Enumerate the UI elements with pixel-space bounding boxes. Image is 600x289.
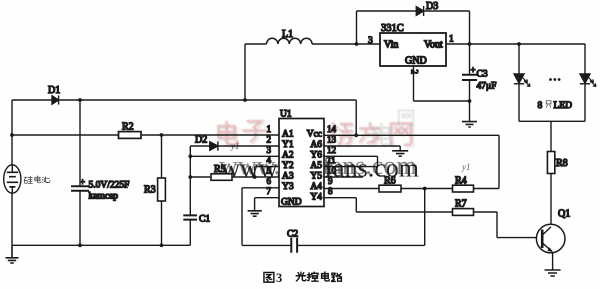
wire: D2 anode to left node [190, 145, 210, 147]
svg-text:Q1: Q1 [558, 209, 570, 220]
svg-text:A2: A2 [282, 151, 294, 161]
resistor R5 [190, 176, 211, 178]
svg-text:A5: A5 [310, 161, 322, 171]
diode D2 [210, 141, 218, 150]
wire: 331C GND pin down and right [414, 66, 470, 101]
图3 光控电路 [264, 272, 274, 282]
transistor Q1 [536, 224, 565, 253]
diode D1 [52, 95, 59, 104]
svg-text:331C: 331C [381, 23, 404, 34]
svg-text:LED: LED [554, 101, 573, 111]
junction: Vin node / D3 branch [355, 42, 359, 46]
svg-text:U1: U1 [280, 110, 292, 120]
junction: Vout node / C3 branch [468, 42, 472, 46]
svg-text:Vout: Vout [424, 40, 443, 51]
junction: supercap top on +V rail [78, 98, 82, 102]
resistor R8 [547, 152, 554, 174]
resistor R2 [119, 132, 142, 139]
wire: top rail after D1 to corner at U1 [59, 99, 357, 101]
regulator U2 331C box [380, 33, 446, 66]
ground (pin13) [392, 151, 408, 156]
wire: pin10 stub [324, 176, 363, 178]
svg-text:Vin: Vin [384, 40, 398, 51]
svg-text:R7: R7 [455, 199, 467, 210]
wire: R8 to Q1 collector [550, 174, 552, 225]
svg-text:Y4: Y4 [310, 193, 322, 203]
junction: Vout node / LED1 branch [517, 42, 521, 46]
junction: R3 bottom on ground rail [160, 243, 164, 247]
resistor R7 [453, 209, 474, 216]
dots ... between LEDs [549, 78, 560, 81]
svg-text:Y2: Y2 [282, 161, 294, 171]
label 硅电池 [24, 176, 50, 184]
wire: R2 to U1 pin 1 [141, 134, 279, 136]
svg-text:R5: R5 [214, 164, 226, 175]
svg-text:8: 8 [328, 186, 333, 196]
ground (under C3) [462, 122, 477, 127]
svg-text:+: + [80, 177, 85, 187]
wire: pin11 stub [324, 156, 378, 166]
svg-text:C1: C1 [199, 215, 210, 225]
capacitor C3 plates [462, 75, 477, 80]
watermark red chinese characters 电子发烧友网 [220, 123, 413, 148]
capacitor C2 [291, 238, 297, 253]
wire: Q1 emitter to ground [552, 252, 554, 270]
svg-text:Y5: Y5 [310, 172, 322, 182]
wire: pin4/pin5 tie [255, 167, 279, 177]
resistor R3 [161, 135, 163, 178]
svg-text:C2: C2 [287, 230, 298, 240]
U1 pin numbers right [327, 124, 337, 196]
junction: L1 branch on +V rail [243, 98, 247, 102]
svg-text:3: 3 [368, 36, 373, 46]
diode D3 [416, 6, 423, 16]
junction: 331C GND / C3 ground node [468, 99, 472, 103]
LED D-right branch wire [584, 44, 586, 74]
svg-text:R6: R6 [384, 176, 396, 187]
junction: Vcc rail / pin14 node [354, 133, 358, 137]
wire: Vcc down to R4 [498, 135, 500, 188]
svg-text:A6: A6 [310, 140, 322, 150]
svg-text:5.0V/225F: 5.0V/225F [89, 181, 130, 191]
U1 pin numbers left [267, 124, 272, 196]
svg-text:y1: y1 [461, 162, 471, 172]
svg-text:GND: GND [281, 198, 302, 208]
junction: R2 tap on battery rail [10, 133, 14, 137]
capacitor C3 leads [469, 44, 471, 121]
svg-text:47μF: 47μF [477, 82, 497, 92]
wire: R2 input from battery rail [12, 134, 119, 136]
wire: C2 right to R6/R4 node [297, 189, 425, 246]
svg-text:+: + [471, 65, 476, 75]
wire: top rail left segment (battery+ to D1 anode) [12, 99, 52, 101]
junction: supercap bottom on ground rail [78, 243, 82, 247]
wire: LED bank to R8 [550, 121, 552, 151]
wire: pin6 Y3 down to C2 [242, 188, 291, 246]
wire: D3 top wire left [357, 10, 417, 12]
LED bank left branch wire [518, 44, 520, 74]
U1 internal labels left column [281, 130, 302, 208]
ground (bottom-left) [6, 245, 19, 263]
svg-text:Y1: Y1 [282, 140, 294, 150]
svg-text:A4: A4 [310, 182, 322, 192]
watermark gray ghost characters [374, 110, 413, 144]
capacitor C bottom lead [79, 192, 81, 246]
wire: D3 branch up from Vin node [356, 11, 358, 44]
wire: D3 top wire right, down to Vout node [424, 11, 470, 44]
capacitor C plates [71, 186, 89, 190]
capacitor C1 [183, 215, 197, 219]
wire: pin7 GND [255, 198, 279, 211]
junction: R2/R3/pin1 node [160, 133, 164, 137]
wire: Vout to LED bank [446, 43, 585, 45]
inductor L1 [244, 44, 246, 100]
wire: pin14 Vcc rail [324, 100, 499, 135]
wire: bottom ground rail [12, 244, 190, 246]
wire: pin13 A6 to ground [324, 146, 400, 150]
wire: pin8 Y4 to R7 [324, 198, 453, 212]
svg-text:1: 1 [267, 124, 272, 134]
capacitor C (supercap) top lead [79, 100, 81, 186]
svg-text:GND: GND [405, 56, 427, 67]
svg-text:1: 1 [449, 35, 454, 45]
junction: R5 right / pin4-pin5 tie [253, 175, 257, 179]
svg-text:C3: C3 [477, 70, 488, 80]
svg-text:R4: R4 [455, 176, 467, 187]
svg-text:L1: L1 [282, 29, 293, 40]
wire: pin2 Y1 to D2 [218, 145, 279, 147]
svg-text:D1: D1 [48, 85, 60, 96]
wire: pin12 stub [324, 155, 378, 157]
junction: node A / R5 left [188, 175, 192, 179]
svg-text:R2: R2 [122, 122, 134, 133]
svg-text:2: 2 [267, 135, 272, 145]
wire: base wire from R7 corner to Q1 [497, 237, 536, 239]
svg-text:A3: A3 [282, 172, 294, 182]
junction: R6/R4/C2 node [423, 187, 427, 191]
wire: pin3 A2 [190, 155, 279, 157]
ground (under U1 pin7) [248, 211, 262, 216]
ground (under Q1) [545, 270, 561, 276]
svg-text:kamcap: kamcap [89, 192, 119, 202]
junction: node A (D2 anode / pin3) [188, 154, 192, 158]
svg-text:A1: A1 [282, 130, 294, 140]
LED D-left [514, 74, 530, 87]
svg-text:Vcc: Vcc [307, 130, 322, 140]
svg-text:8: 8 [538, 101, 543, 111]
wire: left rail vertical [11, 100, 13, 245]
LED D-right [580, 74, 596, 87]
LED bank bottom wire [519, 120, 585, 122]
svg-text:D2: D2 [195, 135, 207, 146]
wire: pin5 A3 [255, 176, 279, 178]
svg-text:14: 14 [327, 124, 337, 134]
wire: left node vertical [189, 146, 191, 215]
U1 internal labels right column [307, 130, 323, 203]
svg-text:Y6: Y6 [310, 151, 322, 161]
svg-text:R8: R8 [556, 158, 568, 169]
battery B (solar cell) [4, 165, 21, 193]
IC U1 box [279, 119, 324, 207]
svg-text:3: 3 [276, 271, 282, 285]
svg-text:R3: R3 [144, 185, 156, 196]
svg-text:Y3: Y3 [282, 182, 294, 192]
resistor R4 [425, 188, 453, 190]
svg-text:2: 2 [410, 70, 420, 75]
resistor R6 [324, 188, 379, 190]
